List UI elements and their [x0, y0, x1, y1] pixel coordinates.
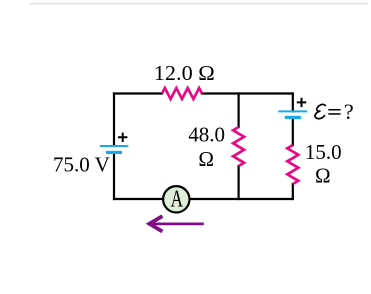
svg-text:Ω: Ω — [198, 147, 214, 171]
svg-text:Ω: Ω — [315, 164, 331, 188]
svg-text:A: A — [171, 184, 184, 212]
svg-text:?: ? — [344, 99, 354, 124]
svg-text:12.0 Ω: 12.0 Ω — [154, 61, 215, 85]
svg-text:75.0 V: 75.0 V — [53, 152, 110, 176]
svg-text:15.0: 15.0 — [305, 140, 342, 164]
svg-text:48.0: 48.0 — [188, 123, 225, 147]
